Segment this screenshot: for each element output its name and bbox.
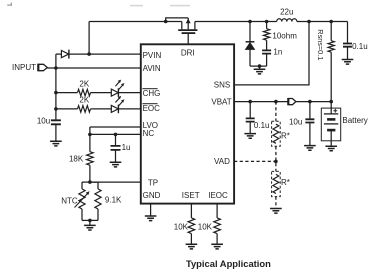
wire VBAT to C6: [309, 102, 311, 120]
svg-text:0.1u: 0.1u: [352, 42, 368, 51]
ground R5: [186, 244, 198, 249]
svg-text:ISET: ISET: [182, 191, 200, 200]
svg-text:SNS: SNS: [214, 81, 230, 90]
junction rail/R7: [265, 20, 269, 24]
resistor R9 upper R*: [272, 121, 290, 146]
svg-text:CHG: CHG: [143, 89, 161, 98]
svg-text:22u: 22u: [280, 7, 293, 16]
wire TP node to TP pin: [90, 181, 141, 183]
wire D4 anode lead: [249, 49, 251, 66]
transistor Q1 PMOS: [178, 18, 197, 33]
diode D1 input: [61, 50, 69, 59]
wire Q1 body connection: [166, 18, 189, 22]
junction CHG row: [54, 91, 58, 95]
resistor R1 2K: [78, 79, 91, 96]
pin EOC label: [142, 104, 160, 114]
resistor R3 18K: [69, 152, 93, 166]
wire snubber bottom bar: [250, 65, 267, 67]
junction VBAT/C6: [308, 100, 312, 104]
wire D4 cathode lead: [249, 22, 251, 42]
junction snubber ground tap: [258, 64, 262, 68]
svg-text:0.1u: 0.1u: [254, 121, 270, 130]
wire left column vertical: [55, 54, 57, 120]
svg-text:GND: GND: [143, 191, 161, 200]
ground battery: [325, 146, 337, 151]
svg-text:Battery: Battery: [342, 116, 367, 125]
capacitor C6 10u: [289, 118, 314, 127]
connector J1 INPUT: [12, 63, 47, 72]
wire D1 to PVIN: [69, 53, 141, 55]
svg-text:VAD: VAD: [214, 157, 230, 166]
faint watermark left: [130, 5, 143, 7]
svg-text:DRI: DRI: [181, 48, 195, 57]
faint watermark right: [170, 5, 190, 7]
svg-text:IEOC: IEOC: [208, 191, 228, 200]
wire PVIN node up to rail: [88, 22, 90, 55]
pin SNS label: [214, 81, 230, 90]
wire rail corner to C4: [347, 22, 349, 44]
pin PVIN label: [143, 51, 162, 60]
svg-text:PVIN: PVIN: [143, 51, 162, 60]
wire ISET pin down: [190, 204, 192, 218]
wire NTC network bottom bar: [82, 219, 98, 221]
pin CHG label: [142, 89, 160, 99]
svg-text:2K: 2K: [79, 96, 89, 105]
wire CHG row left: [56, 92, 78, 94]
svg-text:10u: 10u: [37, 116, 50, 125]
svg-text:Typical Application: Typical Application: [186, 258, 271, 269]
diode D4 freewheel: [246, 42, 255, 50]
pin AVIN label: [143, 64, 161, 73]
resistor R2 2K: [78, 96, 91, 113]
wire top rail right segment: [195, 21, 277, 23]
wire Rsns to VBAT node: [330, 52, 332, 101]
pin VBAT label: [211, 97, 231, 106]
ground C1: [50, 141, 62, 146]
wire NC node to R3: [89, 134, 91, 151]
wire divider bottom dashed: [275, 197, 277, 209]
wire connector to battery: [296, 101, 331, 103]
junction VBAT/battery: [329, 100, 333, 104]
wire R7 to C3: [266, 40, 268, 50]
wire LVO pin: [90, 126, 141, 128]
ground snubber: [254, 69, 266, 74]
svg-text:NC: NC: [143, 129, 155, 138]
caption Typical Application: [186, 258, 271, 269]
wire LED1 to CHG pin: [118, 92, 140, 94]
pin VAD label: [214, 157, 230, 166]
wire SNS feedback: [234, 22, 309, 85]
wire LVO down to NC: [89, 127, 91, 134]
battery BT1: [321, 102, 367, 141]
wire R3 to TP node: [89, 165, 91, 182]
IC U1 battery charger body: [141, 44, 234, 203]
svg-text:2K: 2K: [79, 79, 89, 88]
wire C5 to ground: [249, 122, 251, 134]
wire INPUT to AVIN: [47, 67, 141, 69]
wire rail to R7: [266, 22, 268, 29]
svg-text:VBAT: VBAT: [211, 97, 231, 106]
svg-text:10K: 10K: [198, 223, 213, 232]
wire snubber to ground: [259, 66, 261, 69]
resistor R7 10ohm: [264, 29, 298, 41]
svg-text:Rsns=0.1: Rsns=0.1: [316, 29, 325, 60]
wire C6 to ground: [309, 123, 311, 146]
junction VBAT/R9 divider: [274, 100, 278, 104]
svg-text:10K: 10K: [174, 223, 189, 232]
resistor R4 9.1K: [95, 182, 122, 220]
junction D1/PVIN/top-rail: [87, 52, 91, 56]
wire rail after L1: [297, 21, 348, 23]
wire NTC bottom to ground: [89, 220, 91, 225]
inductor L1 22u: [277, 7, 297, 21]
wire divider mid dashed: [275, 146, 277, 171]
pin TP label: [148, 178, 158, 187]
capacitor C2 1u: [111, 143, 131, 152]
wire VBAT pin to connector: [234, 101, 288, 103]
ground C6: [304, 146, 316, 151]
ground NTC network: [84, 225, 96, 230]
capacitor C5 0.1u: [246, 118, 270, 130]
junction rail/Rsns: [329, 20, 333, 24]
svg-text:R*: R*: [281, 178, 290, 187]
resistor R10 lower R*: [272, 171, 290, 196]
wire R5 to ground: [190, 234, 192, 245]
capacitor C4 0.1u: [343, 42, 368, 51]
ground C5: [244, 134, 256, 139]
page corner mark: [7, 3, 11, 6]
svg-text:18K: 18K: [69, 154, 84, 163]
ground C4: [342, 60, 354, 65]
LED D3 EOC: [111, 96, 124, 113]
ground R* divider: [270, 209, 282, 214]
wire Q1 gate to DRI pin: [187, 33, 189, 44]
wire D1 anode lead: [56, 53, 62, 55]
junction Q1 body tap: [164, 20, 168, 24]
wire R2 to LED2: [91, 108, 112, 110]
junction TP node: [88, 180, 92, 184]
wire LED2 to EOC pin: [118, 108, 140, 110]
wire C3 bottom lead: [266, 54, 268, 67]
svg-text:9.1K: 9.1K: [105, 195, 122, 204]
svg-text:AVIN: AVIN: [143, 64, 161, 73]
wire R1 to LED1: [91, 92, 112, 94]
svg-text:10u: 10u: [289, 118, 302, 127]
junction VBAT/C5: [248, 100, 252, 104]
junction EOC row: [54, 107, 58, 111]
junction rail/D4: [248, 20, 252, 24]
pin IEOC label: [208, 191, 228, 200]
wire VBAT to C5: [249, 102, 251, 119]
pin GND label: [143, 191, 161, 200]
junction input column / AVIN line: [54, 66, 58, 70]
svg-text:EOC: EOC: [143, 104, 161, 113]
wire VAD dashed: [234, 160, 276, 162]
wire divider top dashed: [275, 102, 277, 122]
wire GND pin down: [150, 204, 152, 216]
svg-text:NTC: NTC: [61, 196, 78, 205]
wire NTC network top bar: [82, 181, 98, 183]
svg-text:1u: 1u: [122, 143, 131, 152]
svg-text:INPUT: INPUT: [12, 63, 36, 72]
wire C4 to ground: [347, 47, 349, 60]
pin ISET label: [182, 191, 200, 200]
svg-text:1n: 1n: [273, 47, 282, 56]
resistor R6 10K: [198, 218, 221, 234]
capacitor C3 1n: [262, 47, 282, 56]
wire EOC row left: [56, 108, 78, 110]
wire IEOC pin down: [216, 204, 218, 218]
ground R6: [211, 244, 223, 249]
wire C1 to ground: [55, 124, 57, 141]
junction NTC bottom: [88, 219, 92, 223]
wire battery to ground: [330, 141, 332, 146]
ground C2: [110, 162, 122, 167]
LED D2 CHG: [111, 80, 124, 97]
wire R6 to ground: [216, 234, 218, 245]
junction LVO/NC/18K: [88, 133, 92, 137]
junction NC/C2: [114, 133, 118, 137]
pin NC label: [143, 129, 155, 138]
pin DRI label: [181, 48, 195, 57]
wire top rail left segment: [89, 21, 182, 23]
wire NC to C2: [115, 134, 117, 146]
junction rail/SNS: [307, 20, 311, 24]
thermistor NTC: [61, 182, 89, 220]
pin LVO label: [143, 121, 158, 130]
resistor R8 Rsns: [316, 29, 334, 60]
svg-text:TP: TP: [148, 178, 158, 187]
wire NC pin: [90, 133, 141, 135]
svg-text:R*: R*: [281, 131, 290, 140]
ground GND pin: [145, 216, 157, 221]
capacitor C1 10u: [37, 116, 61, 125]
svg-text:10ohm: 10ohm: [272, 32, 297, 41]
wire C2 to ground: [115, 150, 117, 162]
wire rail to Rsns: [330, 22, 332, 41]
resistor R5 10K: [174, 218, 195, 234]
connector J2 battery output: [288, 98, 296, 105]
junction VAD tap: [274, 160, 278, 164]
